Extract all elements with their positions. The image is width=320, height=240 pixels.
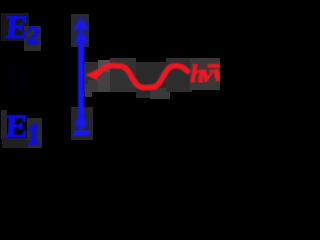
svg-text:1: 1: [25, 119, 42, 151]
svg-text:E: E: [5, 10, 30, 46]
svg-text:2: 2: [26, 23, 40, 50]
